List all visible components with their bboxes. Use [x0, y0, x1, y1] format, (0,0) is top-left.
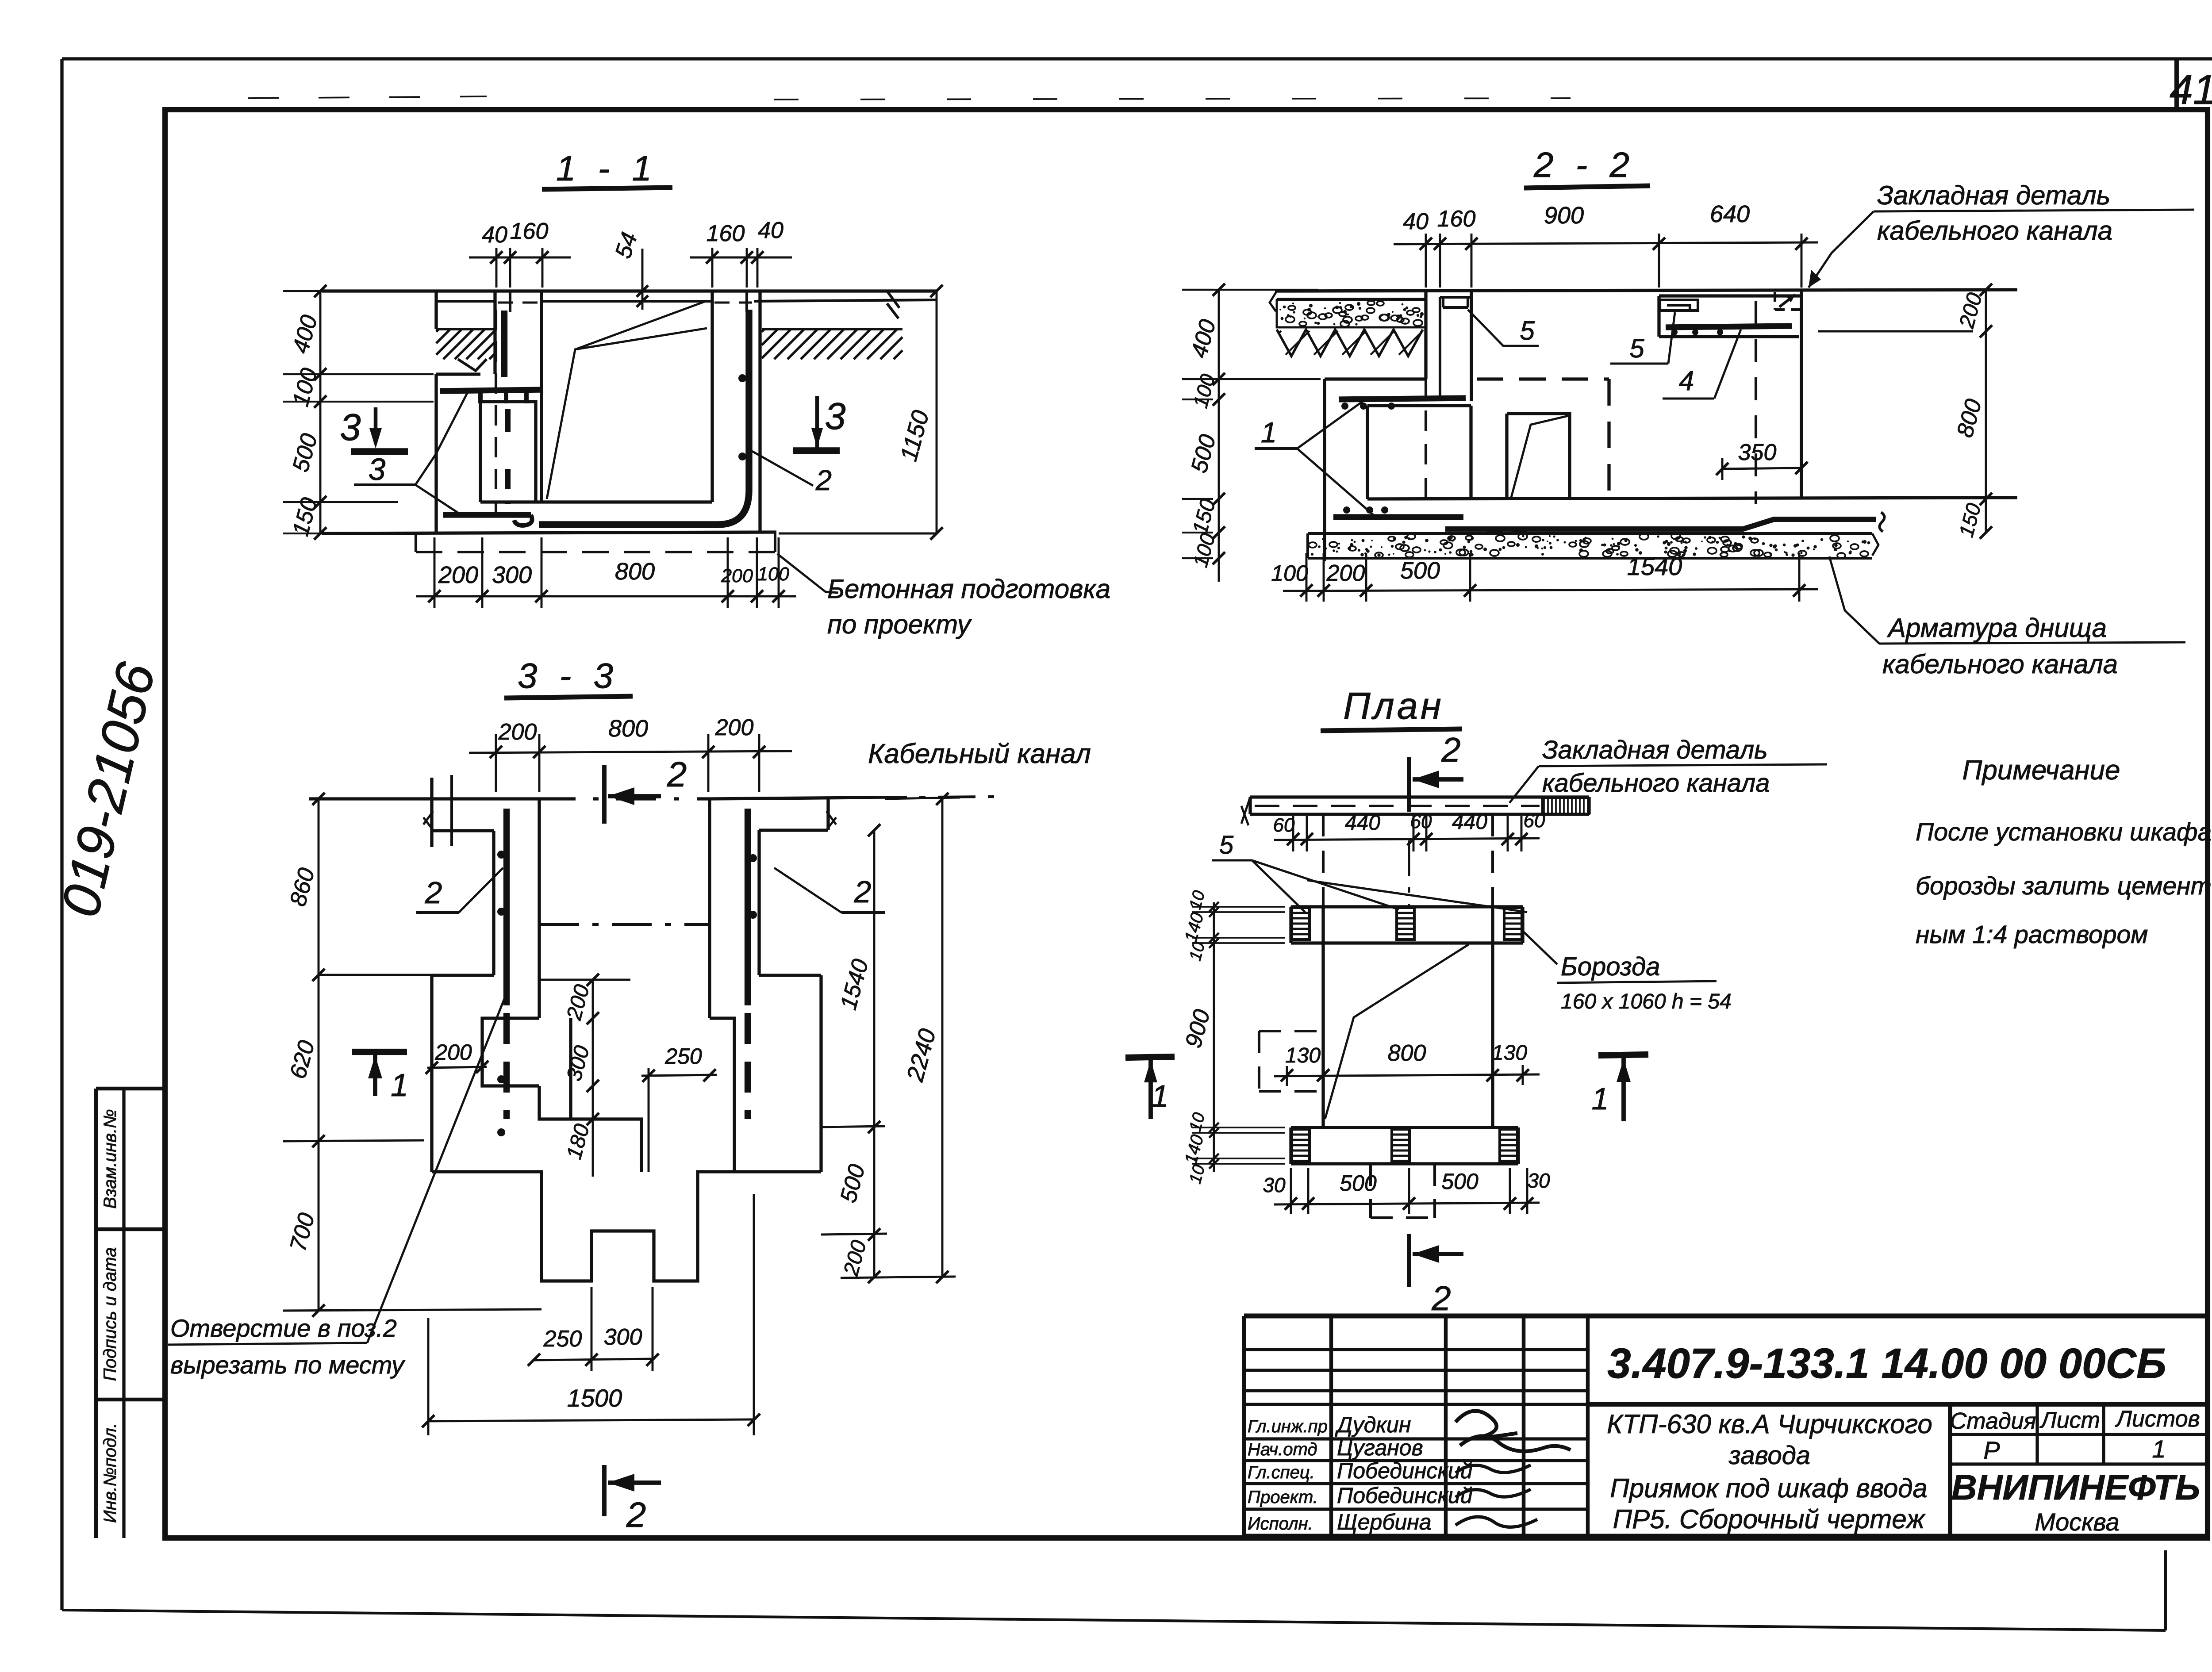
rebar pos3 bottom bar — [443, 512, 531, 518]
svg-text:борозды залить цемент-: борозды залить цемент- — [1916, 872, 2212, 900]
rebar dashed thick marks — [505, 409, 511, 445]
svg-text:160 x 1060 h = 54: 160 x 1060 h = 54 — [1561, 990, 1732, 1013]
svg-text:1540: 1540 — [836, 956, 874, 1012]
svg-text:100: 100 — [757, 564, 789, 585]
right wall 2-2 — [1800, 290, 1803, 498]
dim 200 left inside — [427, 1067, 487, 1068]
svg-text:500: 500 — [1186, 432, 1221, 476]
soil line right — [762, 328, 902, 330]
rebar pos3 vertical thick — [501, 311, 507, 377]
section marker 2 bottom 3-3 — [602, 1465, 607, 1516]
svg-text:800: 800 — [1952, 396, 1986, 440]
svg-text:60: 60 — [1524, 810, 1545, 832]
zigzag hatch band — [1277, 330, 1423, 356]
waffle blocks top — [1292, 908, 1310, 940]
svg-text:Побединский: Побединский — [1337, 1458, 1473, 1483]
svg-text:План: План — [1343, 685, 1444, 727]
svg-text:160: 160 — [1437, 206, 1476, 232]
svg-text:5: 5 — [1629, 334, 1644, 363]
svg-text:КТП-630 кв.А Чирчикского: КТП-630 кв.А Чирчикского — [1607, 1409, 1932, 1439]
block face rect — [1367, 406, 1471, 499]
dim 2240 right — [941, 799, 944, 1277]
svg-text:кабельного канала: кабельного канала — [1542, 769, 1770, 798]
floor top line 2-2 — [1367, 498, 2017, 499]
svg-text:Дудкин: Дудкин — [1335, 1412, 1411, 1437]
svg-text:100: 100 — [1271, 561, 1308, 586]
svg-text:180: 180 — [562, 1121, 594, 1162]
svg-text:5: 5 — [1219, 831, 1234, 859]
dim chain right 2-2 — [1985, 290, 1987, 533]
fold lines inside pit — [547, 328, 707, 499]
svg-text:800: 800 — [615, 558, 655, 585]
svg-text:2: 2 — [626, 1495, 646, 1534]
channel walls vertical plan — [1321, 907, 1325, 1127]
svg-text:3: 3 — [369, 452, 386, 487]
soil hatch left 1-1 — [436, 329, 439, 332]
svg-text:300: 300 — [604, 1324, 642, 1350]
svg-text:1 - 1: 1 - 1 — [556, 149, 658, 188]
svg-text:200: 200 — [715, 715, 754, 740]
svg-text:400: 400 — [288, 312, 322, 356]
svg-text:2: 2 — [1431, 1279, 1451, 1318]
dim chain left 2-2 — [1218, 290, 1220, 582]
section marker 2 plan bottom — [1407, 1234, 1411, 1287]
big code cell — [1588, 1402, 2208, 1407]
svg-text:130: 130 — [1492, 1041, 1527, 1065]
svg-text:Бетонная подготовка: Бетонная подготовка — [827, 574, 1110, 604]
svg-text:1150: 1150 — [895, 407, 934, 464]
ledge line — [436, 372, 480, 376]
svg-text:41: 41 — [2170, 66, 2212, 113]
concrete prep box 1-1 — [415, 533, 417, 552]
svg-text:4: 4 — [1679, 366, 1694, 396]
dim chain left 1-1 — [319, 291, 322, 533]
niche hidden dashed line — [495, 310, 497, 513]
svg-text:Кабельный канал: Кабельный канал — [868, 739, 1091, 769]
svg-text:Проект.: Проект. — [1248, 1488, 1318, 1507]
svg-text:завода: завода — [1728, 1441, 1810, 1470]
signature table rows — [1244, 1348, 1588, 1351]
svg-text:2: 2 — [1441, 730, 1460, 769]
section marker 1 plan left — [1125, 1057, 1175, 1058]
svg-text:200: 200 — [438, 562, 478, 588]
svg-text:700: 700 — [285, 1210, 319, 1254]
svg-text:2: 2 — [815, 464, 832, 496]
left wall outline 3-3 — [432, 778, 494, 1172]
groove hidden bottom dashed — [498, 302, 539, 304]
svg-text:2: 2 — [425, 875, 442, 910]
dims 200 300 180 column — [592, 980, 594, 1177]
svg-text:ПР5. Сборочный чертеж: ПР5. Сборочный чертеж — [1613, 1504, 1926, 1534]
concrete prep band 2-2 — [1308, 533, 1872, 558]
svg-text:1: 1 — [1592, 1081, 1609, 1116]
stadia list listov header — [1950, 1434, 2208, 1464]
svg-text:300: 300 — [562, 1043, 594, 1083]
svg-text:2: 2 — [667, 755, 687, 794]
outer page border — [62, 57, 2212, 60]
svg-text:200: 200 — [1326, 560, 1365, 586]
bottom channel rebar pos4 run — [1445, 519, 1876, 529]
dim 250 inside right — [641, 1075, 717, 1076]
svg-text:500: 500 — [835, 1162, 870, 1205]
dim chain top 2-2 — [1394, 242, 1818, 244]
svg-text:100: 100 — [288, 365, 322, 409]
svg-text:Закладная деталь: Закладная деталь — [1542, 736, 1768, 764]
svg-text:400: 400 — [1186, 317, 1221, 360]
dim 350 — [1722, 468, 1801, 469]
svg-text:620: 620 — [285, 1038, 319, 1081]
svg-text:440: 440 — [1452, 810, 1487, 834]
niche bump left — [482, 1018, 539, 1086]
svg-text:250: 250 — [664, 1044, 702, 1069]
signature table columns — [1331, 1316, 1588, 1536]
hatched end block — [1542, 798, 1589, 814]
right channel lower — [710, 1018, 734, 1172]
svg-text:Нач.отд: Нач.отд — [1248, 1440, 1317, 1459]
soil hatch right 1-1 — [762, 329, 764, 332]
dim 250 300 bottom — [534, 1359, 653, 1360]
right wall outline 3-3 — [759, 799, 828, 1172]
dashed outline cabinet 2-2 — [1477, 379, 1609, 499]
svg-text:500: 500 — [1340, 1171, 1377, 1196]
svg-text:по проекту: по проекту — [827, 610, 972, 639]
svg-text:30: 30 — [1263, 1173, 1286, 1196]
title block outline — [1244, 1314, 2208, 1319]
dim chain top 3-3 — [469, 751, 792, 753]
hidden dashed right — [1755, 301, 1757, 504]
svg-text:3: 3 — [340, 406, 361, 449]
svg-text:150: 150 — [1188, 496, 1220, 537]
svg-text:60: 60 — [1273, 814, 1295, 836]
left wall vertical 2-2 — [1323, 499, 1326, 558]
channel walls center 3-3 — [538, 799, 541, 1018]
svg-text:900: 900 — [1180, 1007, 1215, 1051]
svg-text:1: 1 — [1261, 416, 1277, 449]
dim chain left 3-3 — [318, 799, 320, 1311]
dim 40 160 top left — [495, 248, 498, 288]
dim 54 slab — [641, 249, 644, 310]
svg-text:500: 500 — [288, 431, 322, 475]
svg-text:3.407.9-133.1 14.00 00 00СБ: 3.407.9-133.1 14.00 00 00СБ — [1607, 1340, 2166, 1387]
hidden dashed wall center — [1425, 310, 1427, 499]
dim chain 60 440 60 440 60 — [1274, 838, 1540, 840]
dashed niche rect left — [1259, 1031, 1319, 1091]
svg-text:Подпись и дата: Подпись и дата — [100, 1247, 120, 1381]
svg-text:ВНИПИНЕФТЬ: ВНИПИНЕФТЬ — [1951, 1468, 2200, 1507]
upper groove band — [1291, 907, 1523, 943]
slab cut edge left — [434, 291, 438, 329]
svg-text:30: 30 — [1527, 1169, 1550, 1192]
svg-text:Закладная деталь: Закладная деталь — [1877, 180, 2110, 210]
hidden dash continues — [1322, 814, 1325, 907]
svg-text:Москва: Москва — [2035, 1508, 2119, 1536]
section marker 2 plan top — [1407, 757, 1411, 812]
svg-text:3: 3 — [825, 395, 845, 437]
pit wall right inner — [710, 291, 714, 502]
ground surface line 2-2 — [1275, 290, 2017, 291]
long diagonal leader top — [1307, 880, 1527, 912]
svg-text:250: 250 — [543, 1326, 582, 1352]
left margin stamp table — [96, 1089, 165, 1400]
left edge broken mark — [1270, 291, 1277, 311]
bottom dim 30 500 500 30 — [1274, 1203, 1540, 1204]
svg-text:640: 640 — [1710, 201, 1750, 227]
left wall outer edge — [434, 374, 438, 533]
svg-text:440: 440 — [1345, 811, 1380, 835]
svg-text:1540: 1540 — [1627, 552, 1682, 580]
dim 160 40 top right — [711, 248, 714, 288]
svg-text:Примечание: Примечание — [1962, 755, 2120, 786]
svg-text:кабельного канала: кабельного канала — [1882, 649, 2118, 679]
pit wall left inner — [540, 291, 543, 502]
svg-text:350: 350 — [1738, 440, 1777, 465]
signatures squiggles — [1455, 1411, 1517, 1438]
svg-text:860: 860 — [285, 865, 319, 909]
svg-text:200: 200 — [562, 982, 594, 1023]
svg-text:2: 2 — [854, 874, 872, 909]
section marker 1 plan right — [1598, 1055, 1648, 1055]
dashed box bottom — [1371, 1164, 1435, 1218]
svg-text:40: 40 — [1403, 209, 1429, 234]
concrete floor band stipple — [1277, 300, 1426, 327]
dim 1500 bottom — [428, 1419, 754, 1421]
svg-text:После установки шкафа: После установки шкафа — [1916, 818, 2212, 846]
pit wall right outer — [758, 291, 761, 533]
svg-text:Борозда: Борозда — [1561, 952, 1660, 981]
svg-text:5: 5 — [1520, 316, 1535, 345]
svg-text:60: 60 — [1410, 811, 1432, 832]
svg-text:Цуганов: Цуганов — [1337, 1435, 1423, 1460]
top edge line 3-3 — [309, 797, 536, 800]
leader 5 right — [1668, 312, 1675, 364]
section marker 2 top — [602, 765, 607, 824]
rebar pos2 right thick — [745, 809, 751, 1005]
dim 1150 right — [779, 533, 937, 535]
svg-text:130: 130 — [1285, 1044, 1321, 1067]
top strip scan dashes — [248, 96, 487, 98]
rebar end break — [1879, 512, 1884, 532]
svg-text:200: 200 — [434, 1040, 472, 1065]
svg-text:Приямок под шкаф ввода: Приямок под шкаф ввода — [1610, 1473, 1928, 1503]
rebar pos3 top bar — [440, 390, 543, 391]
left wall step — [319, 974, 432, 976]
dim chain right 3-3 — [873, 830, 876, 1277]
section marker 3 right — [793, 447, 840, 454]
dim 130 800 130 — [1274, 1074, 1540, 1076]
svg-text:Побединский: Побединский — [1337, 1483, 1473, 1508]
leader from band to borozda — [1521, 929, 1557, 964]
ground surface line 1-1 — [322, 289, 937, 292]
svg-text:Инв.№подл.: Инв.№подл. — [100, 1423, 120, 1523]
svg-text:10: 10 — [1186, 1163, 1209, 1186]
left small dims bottom band — [1192, 1127, 1285, 1128]
svg-text:54: 54 — [610, 229, 642, 261]
left small dims 10 140 10 (top band) — [1213, 902, 1215, 949]
pit bottom line — [322, 532, 776, 533]
svg-text:200: 200 — [498, 719, 537, 745]
foundation block 2-2 — [1325, 377, 1426, 380]
svg-text:Лист: Лист — [2039, 1407, 2100, 1433]
svg-text:500: 500 — [1400, 557, 1440, 584]
svg-text:Листов: Листов — [2115, 1406, 2200, 1432]
fold line in opening — [1511, 416, 1568, 499]
embedded part top (zakladnaya) left — [1440, 297, 1471, 307]
svg-text:Р: Р — [1983, 1436, 2000, 1464]
svg-text:Гл.спец.: Гл.спец. — [1248, 1463, 1315, 1482]
waffle blocks bottom — [1292, 1129, 1310, 1161]
slab bottom line 2-2 — [1277, 298, 1426, 300]
svg-text:Отверстие в поз.2: Отверстие в поз.2 — [170, 1314, 397, 1342]
rebar pos2 L-bar — [539, 310, 749, 525]
svg-text:Взам.инв.№: Взам.инв.№ — [100, 1109, 120, 1208]
svg-text:ным 1:4 раствором: ным 1:4 раствором — [1916, 920, 2148, 949]
svg-text:Гл.инж.пр: Гл.инж.пр — [1248, 1417, 1328, 1436]
slab bottom line 1-1 — [436, 300, 495, 303]
dim chain bottom 1-1 — [416, 595, 796, 598]
pit floor line — [480, 500, 712, 503]
svg-text:Щербина: Щербина — [1337, 1510, 1432, 1534]
rebar pos2 left thick — [503, 809, 510, 1005]
svg-text:200: 200 — [839, 1238, 871, 1278]
svg-text:1500: 1500 — [567, 1384, 622, 1412]
concrete prep label — [777, 554, 838, 593]
svg-text:1: 1 — [391, 1068, 408, 1103]
channel rebar right — [1666, 326, 1792, 327]
rebar end tick top left — [450, 775, 453, 846]
svg-text:150: 150 — [1954, 501, 1985, 540]
soil line left — [436, 328, 496, 330]
section marker 1 left 3-3 — [352, 1049, 407, 1055]
svg-text:10: 10 — [1186, 889, 1209, 912]
svg-text:800: 800 — [608, 715, 648, 742]
svg-text:кабельного канала: кабельного канала — [1877, 216, 2112, 245]
rebar pos1 top — [1339, 398, 1466, 399]
svg-text:300: 300 — [492, 562, 532, 588]
svg-text:40: 40 — [482, 222, 507, 248]
svg-text:Арматура днища: Арматура днища — [1887, 613, 2107, 643]
svg-text:Стадия: Стадия — [1950, 1408, 2036, 1434]
door opening rect — [1507, 414, 1570, 499]
svg-text:800: 800 — [1388, 1040, 1426, 1066]
leader 5 left — [1468, 310, 1539, 346]
svg-text:2240: 2240 — [902, 1026, 941, 1085]
svg-text:140: 140 — [1181, 1133, 1208, 1166]
dim chain bottom 2-2 — [1283, 589, 1818, 591]
svg-text:140: 140 — [1181, 911, 1208, 944]
section marker 3 left — [351, 448, 408, 455]
break mark right — [887, 291, 899, 318]
zakladnaya corner mark top right — [1775, 292, 1801, 310]
svg-text:200: 200 — [1955, 290, 1987, 331]
svg-text:200: 200 — [721, 565, 753, 587]
sheet number cell divider — [2174, 59, 2179, 110]
svg-text:вырезать по месту: вырезать по месту — [170, 1351, 405, 1379]
svg-text:40: 40 — [758, 218, 783, 243]
svg-text:Исполн.: Исполн. — [1248, 1514, 1313, 1534]
svg-text:160: 160 — [707, 221, 745, 246]
groove wall left — [493, 291, 496, 374]
svg-text:10: 10 — [1186, 1111, 1209, 1134]
step below niche — [539, 1018, 571, 1119]
inner drawing frame — [165, 110, 2208, 1538]
svg-text:160: 160 — [510, 219, 549, 244]
svg-text:1: 1 — [2152, 1435, 2166, 1463]
bottom outline with T foot — [432, 1172, 821, 1281]
rebar pos1 bottom — [1333, 514, 1463, 520]
axis dash-dot center — [539, 923, 710, 926]
right closed channel 2-2 — [1659, 296, 1801, 337]
svg-text:900: 900 — [1544, 202, 1584, 229]
strip left arrow mark — [1241, 797, 1250, 825]
lower groove band — [1291, 1127, 1518, 1164]
svg-text:2 - 2: 2 - 2 — [1533, 145, 1636, 184]
svg-text:1: 1 — [1152, 1079, 1169, 1113]
svg-text:019-21056: 019-21056 — [50, 657, 166, 922]
channel wall verticals 2-2 — [1424, 291, 1427, 379]
embedded strip (zakladnaya detal) — [1250, 797, 1589, 814]
axis dash-dot vertical — [1408, 840, 1410, 907]
niche outline — [480, 402, 536, 502]
svg-text:3 - 3: 3 - 3 — [518, 656, 619, 695]
svg-text:500: 500 — [1441, 1169, 1479, 1194]
